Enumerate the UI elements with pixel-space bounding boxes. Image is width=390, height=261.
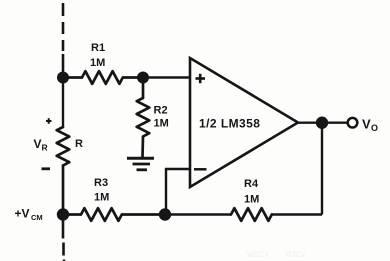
- wire: feedback vertical from output node to bottom rail: [321, 123, 323, 215]
- resistor R (source series): [57, 127, 70, 215]
- terminal VO open circle: [348, 118, 358, 128]
- svg-text:R1: R1: [91, 42, 105, 54]
- wire: dashed bottom rail segment: [63, 215, 64, 261]
- svg-text:1M: 1M: [90, 57, 105, 69]
- svg-text:+V: +V: [15, 207, 30, 221]
- node B: R1/R2/non-inverting input junction: [137, 72, 149, 84]
- wire: dashed top rail segment: [62, 3, 65, 78]
- svg-text:V: V: [34, 137, 42, 151]
- label +VCM: [15, 207, 43, 222]
- svg-text:R4: R4: [244, 178, 259, 190]
- svg-text:1/2 LM358: 1/2 LM358: [199, 117, 260, 131]
- svg-text:MJCx: MJCx: [285, 250, 305, 259]
- node: VCM junction: [57, 208, 69, 220]
- label VR polarity -: [42, 167, 51, 170]
- label R3 1M: [94, 177, 109, 204]
- wire: inverting input branch: [166, 169, 190, 215]
- label VO: [362, 117, 378, 134]
- label R1 1M: [90, 42, 105, 69]
- resistor R3: [63, 207, 165, 222]
- svg-text:R: R: [75, 138, 83, 150]
- svg-text:CM: CM: [31, 213, 43, 222]
- resistor R2: [137, 78, 150, 158]
- wire: bottom rail right segment with turn: [165, 213, 322, 215]
- svg-text:1M: 1M: [244, 194, 259, 206]
- svg-text:1M: 1M: [154, 118, 169, 130]
- node A: R1 left / VR top junction: [57, 72, 69, 84]
- resistor R4: [231, 207, 272, 222]
- label R4 1M: [244, 178, 259, 206]
- svg-text:R2: R2: [154, 105, 168, 117]
- label VR polarity +: [46, 118, 52, 124]
- wire: VR branch upper lead: [62, 78, 64, 128]
- label R2 1M: [154, 105, 169, 130]
- svg-text:1M: 1M: [94, 192, 109, 204]
- resistor R1: [63, 71, 143, 84]
- faint watermark remnants: [247, 250, 305, 259]
- svg-text:V: V: [362, 117, 371, 132]
- wire: op-amp output: [297, 121, 348, 123]
- node: output / feedback junction: [316, 117, 328, 129]
- label op-amp - input polarity: [194, 168, 207, 171]
- svg-text:R: R: [42, 143, 48, 153]
- svg-text:W2Cx: W2Cx: [247, 250, 269, 259]
- svg-text:O: O: [371, 123, 378, 133]
- node: R3/R4/inverting branch junction: [159, 208, 171, 220]
- svg-text:R3: R3: [94, 177, 108, 189]
- ground: [127, 158, 154, 170]
- label op-amp + input polarity: [196, 74, 206, 83]
- op-amp U1 1/2 LM358: [190, 58, 298, 187]
- wire: node B to op-amp + input: [143, 76, 190, 78]
- label VR: [34, 137, 48, 153]
